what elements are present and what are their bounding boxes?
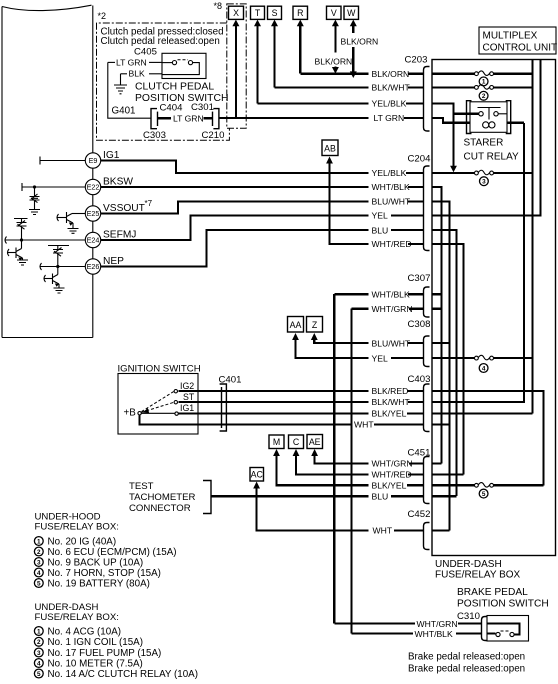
svg-text:CLUTCH PEDAL: CLUTCH PEDAL bbox=[135, 82, 214, 93]
bottom edge bbox=[2, 337, 93, 339]
wire from W with label bbox=[352, 25, 354, 33]
wire fuse 2 out bbox=[494, 86, 533, 88]
wire LT GRN bbox=[149, 61, 162, 63]
svg-text:BLK/YEL: BLK/YEL bbox=[372, 409, 407, 419]
connector M bbox=[269, 435, 284, 449]
junction on BKSW line bbox=[33, 185, 36, 188]
svg-text:AB: AB bbox=[324, 143, 336, 153]
svg-text:AE: AE bbox=[309, 437, 321, 447]
svg-text:BLK/YEL: BLK/YEL bbox=[372, 481, 407, 491]
wire WHT/RED C451 to bus end bbox=[432, 473, 464, 475]
wire SEFMJ to YEL bbox=[101, 215, 369, 240]
wire YEL C308 into fuse 4 bbox=[432, 357, 475, 359]
test tachometer + letter boxes bbox=[129, 435, 369, 531]
fuse 5 item bbox=[34, 579, 43, 588]
connector circle E22 bbox=[85, 179, 100, 194]
dash-dot frame around X bbox=[227, 4, 246, 128]
relay coil bbox=[483, 122, 489, 128]
wire IG1 to YEL/BLK bbox=[101, 161, 369, 173]
ignition switch box bbox=[118, 374, 198, 435]
wire fuse 4 out bbox=[494, 357, 533, 359]
wire from R bbox=[299, 25, 301, 74]
wire from T bbox=[256, 25, 258, 103]
starter cut relay bracket right bbox=[506, 101, 511, 134]
wire Z to BLU/WHT C308 bbox=[314, 339, 368, 344]
wire YEL C204 up to top bbox=[432, 60, 541, 216]
fuse 5 bbox=[475, 483, 479, 487]
NEP internal line bbox=[41, 266, 86, 268]
wire AB to WHT/RED bbox=[330, 162, 369, 244]
svg-text:BLK/ORN: BLK/ORN bbox=[372, 69, 410, 79]
svg-text:No. 4 ACG (10A): No. 4 ACG (10A) bbox=[48, 626, 122, 637]
svg-text:5: 5 bbox=[37, 580, 41, 587]
E22 internal stub bbox=[22, 183, 85, 191]
wire YEL/BLK down to fuse 3 line bbox=[432, 103, 454, 166]
svg-text:C405: C405 bbox=[134, 47, 157, 58]
svg-text:SEFMJ: SEFMJ bbox=[103, 230, 136, 241]
wire WHT/BLK C307 to bus bbox=[432, 293, 442, 295]
svg-text:5: 5 bbox=[37, 671, 41, 678]
svg-text:CONTROL UNIT: CONTROL UNIT bbox=[483, 43, 558, 54]
svg-text:No. 20 IG (40A): No. 20 IG (40A) bbox=[48, 536, 117, 547]
wire from V with label bbox=[334, 25, 336, 53]
wiper arrow bbox=[143, 408, 150, 413]
wire BLK/WHT into fuse 2 bbox=[432, 86, 475, 88]
svg-text:Brake pedal released:open: Brake pedal released:open bbox=[408, 652, 525, 663]
svg-text:YEL: YEL bbox=[372, 211, 388, 221]
connector AC bbox=[250, 468, 264, 482]
wire WHT C452 to bus end bbox=[432, 529, 450, 531]
svg-text:BLK/RED: BLK/RED bbox=[372, 386, 409, 396]
connector circle E9 bbox=[85, 153, 100, 168]
svg-text:Clutch pedal released:open: Clutch pedal released:open bbox=[101, 36, 220, 47]
svg-text:C303: C303 bbox=[143, 130, 166, 141]
connector C bbox=[289, 435, 304, 449]
svg-text:Brake pedal released:open: Brake pedal released:open bbox=[408, 664, 525, 675]
torn top edge bbox=[2, 5, 92, 10]
svg-text:C204: C204 bbox=[408, 154, 432, 165]
svg-text:BLU: BLU bbox=[372, 225, 389, 235]
svg-text:LT GRN: LT GRN bbox=[374, 113, 405, 123]
svg-text:C: C bbox=[293, 437, 300, 447]
fuse lists bbox=[34, 512, 198, 680]
svg-text:E24: E24 bbox=[87, 236, 100, 245]
SEFMJ internal line bbox=[6, 239, 86, 241]
svg-text:CONNECTOR: CONNECTOR bbox=[129, 503, 191, 514]
clutch pedal area bbox=[97, 11, 369, 141]
wire BLU/WHT C308 to bus bbox=[432, 342, 450, 344]
wire BLK/WHT C403 to relay bbox=[432, 123, 524, 402]
svg-text:No. 9 BACK UP (10A): No. 9 BACK UP (10A) bbox=[48, 557, 144, 568]
svg-text:AA: AA bbox=[290, 320, 302, 330]
fuse 4 item bbox=[34, 568, 43, 577]
svg-text:2: 2 bbox=[37, 639, 41, 646]
fuse bus vertical bbox=[531, 60, 533, 414]
connector circle E26 bbox=[85, 259, 100, 274]
wire IG1 to BLK/YEL bbox=[179, 412, 369, 414]
wiper solid to IG1 bbox=[141, 412, 174, 414]
under-dash fuse/relay box outline bbox=[432, 60, 556, 556]
svg-text:No. 14 A/C CLUTCH RELAY (10A): No. 14 A/C CLUTCH RELAY (10A) bbox=[48, 669, 198, 680]
svg-text:NEP: NEP bbox=[103, 256, 124, 267]
svg-text:FUSE/RELAY BOX: FUSE/RELAY BOX bbox=[435, 570, 521, 581]
ground G401 bbox=[120, 74, 122, 85]
svg-text:WHT/GRN: WHT/GRN bbox=[372, 304, 413, 314]
svg-text:CUT RELAY: CUT RELAY bbox=[464, 152, 520, 163]
svg-text:BRAKE PEDAL: BRAKE PEDAL bbox=[457, 587, 528, 598]
svg-text:*7: *7 bbox=[145, 199, 153, 208]
svg-text:YEL/BLK: YEL/BLK bbox=[372, 99, 407, 109]
svg-text:BLK: BLK bbox=[129, 69, 146, 79]
svg-text:WHT/BLK: WHT/BLK bbox=[372, 182, 410, 192]
switch internals bbox=[487, 624, 520, 635]
test tachometer bracket bbox=[203, 481, 211, 514]
svg-text:C210: C210 bbox=[202, 130, 225, 141]
wire YEL/BLK from T bbox=[258, 102, 369, 104]
svg-text:TEST: TEST bbox=[129, 481, 154, 492]
connector W bbox=[344, 6, 359, 19]
svg-text:BLU: BLU bbox=[372, 491, 389, 501]
svg-text:FUSE/RELAY BOX:: FUSE/RELAY BOX: bbox=[35, 522, 119, 533]
connector pin bar bbox=[212, 112, 214, 126]
fuse box interior bbox=[432, 27, 557, 581]
connector bracket C301/C210 bbox=[213, 109, 219, 129]
wire AE to WHT/GRN C451 bbox=[315, 455, 369, 464]
wire NEP to BLU bbox=[101, 230, 369, 266]
wire AA to YEL C308 bbox=[296, 339, 369, 359]
svg-text:YEL: YEL bbox=[372, 353, 388, 363]
wire LT GRN to relay coil bbox=[432, 118, 470, 123]
connector X bbox=[229, 6, 244, 19]
transistor under NEP bbox=[57, 267, 59, 275]
wire WHT/BLK C307 bbox=[334, 293, 368, 295]
wire LT GRN out bbox=[219, 117, 369, 119]
svg-text:3: 3 bbox=[482, 179, 486, 186]
zener with bar above SEFMJ bbox=[14, 219, 28, 223]
svg-text:YEL/BLK: YEL/BLK bbox=[372, 168, 407, 178]
svg-text:BLK/WHT: BLK/WHT bbox=[372, 397, 411, 407]
connector C203 bracket bbox=[424, 67, 430, 132]
svg-text:IGNITION SWITCH: IGNITION SWITCH bbox=[118, 364, 201, 375]
wire WHT/GRN to brake switch bbox=[334, 622, 415, 624]
svg-text:3: 3 bbox=[37, 559, 41, 566]
connector C403 bracket bbox=[424, 384, 430, 432]
wire BLK/WHT from S bbox=[275, 86, 369, 88]
svg-text:2: 2 bbox=[37, 549, 41, 556]
svg-text:No. 10 METER (7.5A): No. 10 METER (7.5A) bbox=[48, 658, 143, 669]
svg-text:No. 19 BATTERY (80A): No. 19 BATTERY (80A) bbox=[48, 578, 150, 589]
right edge segments between connector circles bbox=[92, 6, 94, 338]
svg-text:BLK/ORN: BLK/ORN bbox=[315, 56, 353, 66]
svg-text:C203: C203 bbox=[405, 55, 428, 66]
ECM/PCM torn box bbox=[2, 5, 153, 337]
wire BLU C204 down bbox=[432, 230, 457, 496]
svg-text:Z: Z bbox=[312, 320, 318, 330]
svg-text:STARER: STARER bbox=[464, 138, 504, 149]
wire BLK/RED C403 across and down bbox=[432, 391, 544, 485]
switch contacts bbox=[172, 61, 176, 65]
connector AE bbox=[307, 435, 323, 449]
connector pin bar bbox=[157, 112, 159, 126]
wire WHT/GRN C451 to bus end bbox=[432, 462, 442, 464]
wire LT GRN between bbox=[158, 117, 172, 119]
wire BLU/WHT C204 down bbox=[432, 202, 450, 531]
svg-text:C404: C404 bbox=[160, 103, 184, 114]
fuse 4 bbox=[475, 356, 479, 360]
relay contact bbox=[478, 108, 501, 120]
brake pedal switch bbox=[334, 587, 548, 675]
zener to ground under BKSW bbox=[34, 187, 36, 196]
wire ST to BLK/WHT bbox=[179, 401, 369, 403]
wire IG2 to BLK/RED bbox=[179, 390, 369, 392]
svg-text:No. 6 ECU (ECM/PCM) (15A): No. 6 ECU (ECM/PCM) (15A) bbox=[48, 547, 177, 558]
svg-text:WHT/GRN: WHT/GRN bbox=[417, 619, 458, 629]
wire from X bbox=[235, 25, 237, 118]
connector bracket C404/C303 bbox=[151, 109, 157, 129]
fuse 1 bbox=[475, 72, 479, 76]
fuse 1 item bbox=[34, 627, 43, 636]
wire WHT/BLK to brake switch bbox=[352, 632, 413, 634]
svg-text:IG2: IG2 bbox=[180, 381, 194, 391]
svg-text:IG1: IG1 bbox=[103, 150, 120, 161]
svg-text:ST: ST bbox=[183, 392, 195, 402]
connector circle E24 bbox=[85, 232, 100, 247]
fuse 2 item bbox=[34, 637, 43, 646]
wire YEL/BLK C204 into fuse 3 bbox=[432, 172, 475, 174]
connector AB bbox=[322, 140, 338, 156]
svg-text:R: R bbox=[297, 8, 303, 18]
connector C310 bracket bbox=[482, 617, 488, 641]
connector C451 bracket bbox=[424, 457, 430, 504]
svg-text:AC: AC bbox=[251, 469, 264, 479]
svg-text:BLK/ORN: BLK/ORN bbox=[341, 36, 379, 46]
left edge bbox=[1, 7, 3, 338]
fuse 2 bbox=[475, 86, 479, 90]
svg-text:No. 1 IGN COIL (15A): No. 1 IGN COIL (15A) bbox=[48, 637, 143, 648]
svg-text:WHT/GRN: WHT/GRN bbox=[372, 459, 413, 469]
junction on NEP line bbox=[56, 265, 59, 268]
connector R bbox=[293, 6, 308, 19]
svg-text:5: 5 bbox=[482, 491, 486, 498]
svg-text:S: S bbox=[272, 8, 278, 18]
wire VSSOUT to BLU/WHT bbox=[101, 202, 369, 214]
brake pedal position switch box bbox=[487, 616, 529, 642]
svg-text:C301: C301 bbox=[191, 102, 214, 113]
svg-text:C307: C307 bbox=[408, 273, 431, 284]
connector C452 bracket bbox=[424, 523, 430, 550]
fuse 5 item bbox=[34, 669, 43, 678]
top letter connectors bbox=[214, 1, 379, 128]
wire test tach to BLU C451 bbox=[211, 495, 369, 497]
svg-text:IG1: IG1 bbox=[180, 403, 194, 413]
E9 internal stub bbox=[40, 157, 85, 165]
wire WHT/BLK C204 down bbox=[432, 187, 442, 464]
connector S bbox=[268, 6, 282, 19]
connector T bbox=[251, 6, 265, 19]
switch wiper dashed lines bbox=[142, 392, 174, 413]
connector C204 bracket bbox=[424, 166, 430, 251]
wire WHT/RED C204 down bbox=[432, 244, 464, 475]
wire WHT C403 to bus bbox=[432, 423, 450, 425]
wire BLK bbox=[149, 73, 162, 75]
connector C308 bracket bbox=[424, 336, 430, 367]
ignition switch bbox=[118, 364, 369, 435]
svg-text:*2: *2 bbox=[98, 11, 107, 21]
svg-text:3: 3 bbox=[37, 650, 41, 657]
relay coil lead right bbox=[507, 122, 524, 124]
svg-text:E22: E22 bbox=[87, 183, 100, 192]
wire fuse 1 out bbox=[494, 73, 533, 75]
connector AA bbox=[288, 317, 304, 333]
wire WHT/GRN C307 bbox=[352, 308, 369, 310]
svg-text:T: T bbox=[255, 8, 261, 18]
fuse 2 item bbox=[34, 547, 43, 556]
fuse 3 bbox=[475, 171, 479, 175]
MULTIPLEX CONTROL UNIT label box bbox=[479, 27, 556, 54]
fuse 3 item bbox=[34, 558, 43, 567]
wire +B down and out bbox=[140, 415, 352, 425]
svg-text:LT GRN: LT GRN bbox=[116, 57, 147, 67]
starter cut relay bracket left bbox=[467, 101, 472, 134]
connector label column bbox=[354, 55, 431, 550]
svg-text:TACHOMETER: TACHOMETER bbox=[129, 492, 196, 503]
starter cut relay box bbox=[470, 102, 507, 133]
svg-text:W: W bbox=[347, 8, 356, 18]
svg-text:E26: E26 bbox=[87, 262, 100, 271]
clutch pedal position switch box bbox=[162, 53, 206, 78]
svg-text:4: 4 bbox=[37, 570, 41, 577]
svg-text:C310: C310 bbox=[457, 611, 480, 622]
svg-text:BLU/WHT: BLU/WHT bbox=[372, 197, 411, 207]
svg-text:UNDER-DASH: UNDER-DASH bbox=[435, 559, 502, 570]
junction on SEFMJ line bbox=[20, 238, 23, 241]
transistor under SEFMJ bbox=[21, 240, 23, 249]
svg-text:WHT: WHT bbox=[354, 420, 374, 430]
svg-text:V: V bbox=[331, 8, 337, 18]
wire WHT/GRN C307 to bus bbox=[432, 308, 442, 310]
connector C307 bracket bbox=[424, 287, 430, 317]
wire fuse 5 out bbox=[494, 484, 544, 486]
svg-text:1: 1 bbox=[37, 628, 41, 635]
svg-text:WHT/BLK: WHT/BLK bbox=[372, 289, 410, 299]
svg-text:FUSE/RELAY BOX:: FUSE/RELAY BOX: bbox=[35, 612, 119, 623]
svg-text:BLK/WHT: BLK/WHT bbox=[372, 83, 411, 93]
svg-text:2: 2 bbox=[482, 93, 486, 100]
svg-text:+B: +B bbox=[124, 408, 137, 419]
wire BLK/YEL C403 to bus bbox=[432, 412, 533, 414]
svg-text:MULTIPLEX: MULTIPLEX bbox=[483, 31, 538, 42]
svg-text:G401: G401 bbox=[112, 106, 136, 117]
svg-text:C308: C308 bbox=[408, 319, 431, 330]
svg-text:4: 4 bbox=[482, 365, 486, 372]
svg-text:WHT/RED: WHT/RED bbox=[372, 470, 412, 480]
svg-text:WHT/RED: WHT/RED bbox=[372, 239, 412, 249]
svg-text:POSITION SWITCH: POSITION SWITCH bbox=[457, 599, 549, 610]
left wires bbox=[101, 74, 369, 634]
svg-text:No. 7 HORN, STOP (15A): No. 7 HORN, STOP (15A) bbox=[48, 568, 161, 579]
wire C to WHT/RED C451 bbox=[296, 455, 369, 475]
wire down to C404 bbox=[108, 62, 151, 118]
wire fuse 3 out bbox=[494, 172, 533, 174]
svg-text:BLU/WHT: BLU/WHT bbox=[372, 338, 411, 348]
fuse 3 item bbox=[34, 648, 43, 657]
long vertical to brake switch bbox=[333, 294, 335, 623]
svg-text:C452: C452 bbox=[408, 509, 431, 520]
connector C401 halves bbox=[221, 387, 223, 428]
wire BLK/ORN into fuse 1 bbox=[432, 73, 475, 75]
wire BKSW to WHT/BLK bbox=[101, 186, 369, 188]
svg-text:1: 1 bbox=[37, 538, 41, 545]
wire AC to WHT C452 bbox=[257, 487, 369, 530]
svg-text:M: M bbox=[273, 437, 280, 447]
relay contact lead left bbox=[454, 113, 479, 115]
fuse 1 item bbox=[34, 537, 43, 546]
svg-text:X: X bbox=[233, 8, 239, 18]
svg-text:LT GRN: LT GRN bbox=[173, 113, 204, 123]
svg-text:No. 17 FUEL PUMP (15A): No. 17 FUEL PUMP (15A) bbox=[48, 648, 162, 659]
wire M to BLK/YEL C451 bbox=[277, 455, 369, 486]
wire BLK/YEL C451 into fuse 5 bbox=[432, 484, 475, 486]
wire from S bbox=[273, 25, 275, 87]
connector Z bbox=[307, 317, 323, 333]
zener with bar above NEP bbox=[48, 246, 69, 250]
svg-text:E25: E25 bbox=[87, 209, 100, 218]
svg-text:WHT/BLK: WHT/BLK bbox=[415, 629, 453, 639]
wire BLU C451 to bus end bbox=[432, 495, 457, 497]
svg-text:*8: *8 bbox=[214, 1, 223, 11]
connector V bbox=[327, 6, 342, 19]
dash-dot frame bbox=[97, 23, 230, 140]
long vertical to brake switch bbox=[350, 309, 352, 634]
svg-text:VSSOUT: VSSOUT bbox=[103, 203, 145, 214]
transistor Q (VSSOUT) bbox=[72, 213, 85, 215]
wire BLK/ORN from R bbox=[300, 73, 368, 75]
svg-text:E9: E9 bbox=[89, 156, 98, 165]
svg-text:WHT: WHT bbox=[373, 526, 393, 536]
svg-text:4: 4 bbox=[37, 660, 41, 667]
fuse 4 item bbox=[34, 659, 43, 668]
connector circle E25 bbox=[85, 206, 100, 221]
